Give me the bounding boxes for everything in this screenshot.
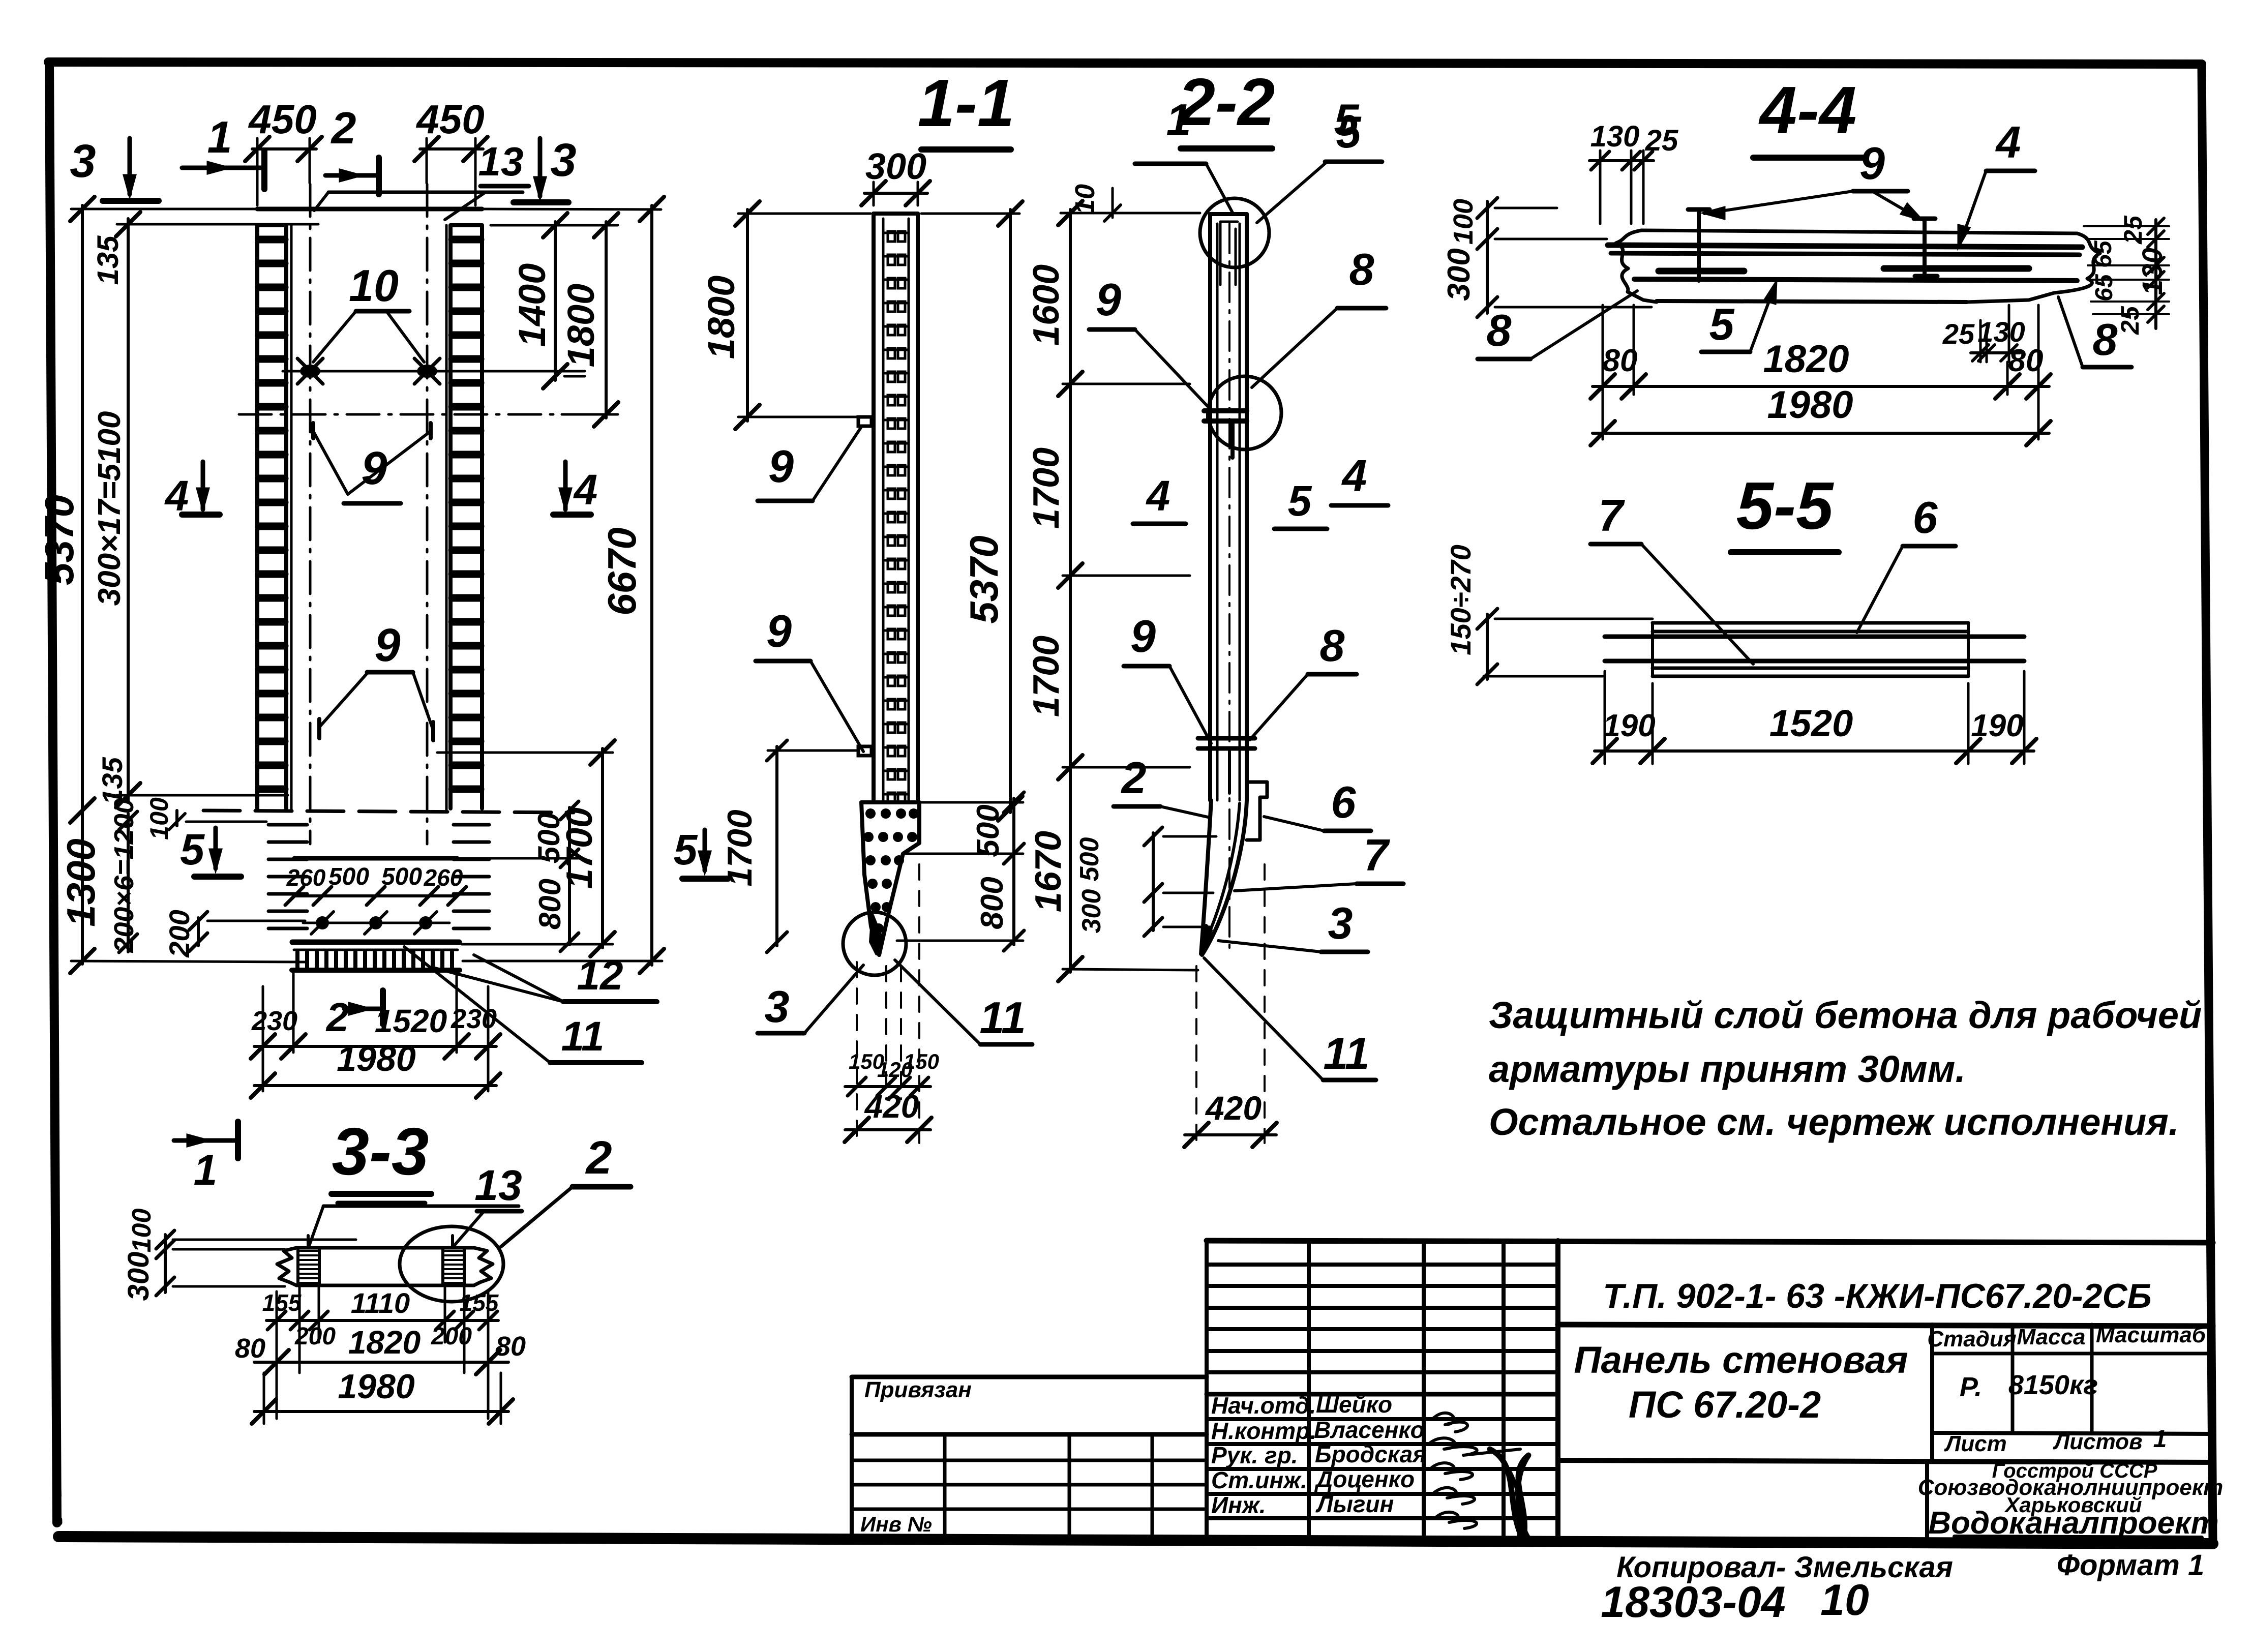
svg-text:Формат 1: Формат 1	[2057, 1549, 2204, 1582]
main view: bottom comb strip	[294, 949, 458, 951]
svg-text:500: 500	[1075, 837, 1104, 882]
svg-text:4-4: 4-4	[1758, 73, 1857, 147]
svg-text:3-3: 3-3	[332, 1114, 429, 1189]
section 2-2 column leaf walls	[1208, 214, 1212, 800]
svg-text:300: 300	[1442, 248, 1477, 301]
title block outer top line	[1207, 1241, 2213, 1243]
svg-text:200: 200	[294, 1323, 336, 1350]
svg-text:450: 450	[248, 97, 316, 142]
svg-text:5: 5	[1709, 299, 1735, 349]
section 2-2 detail circle top	[1200, 198, 1269, 267]
section 2-2 column centerline	[1228, 224, 1230, 956]
section 3-3 detail oval	[400, 1226, 503, 1302]
section 2-2 left dim line	[1069, 209, 1072, 972]
section 1-1 dimension 800 right	[1012, 857, 1015, 945]
title block name rows	[1207, 1417, 1558, 1421]
main view: vertical centerline right	[426, 184, 429, 844]
svg-text:300×17=5100: 300×17=5100	[92, 411, 127, 606]
anchor plate dot 3	[419, 916, 432, 929]
svg-text:500: 500	[328, 863, 369, 890]
svg-text:200×6=1200: 200×6=1200	[109, 798, 139, 953]
svg-text:135: 135	[92, 235, 125, 285]
svg-text:1700: 1700	[720, 809, 759, 886]
dimension 800 right	[568, 861, 571, 945]
section 4-4 dims 25 130 bottom-right	[1979, 320, 1982, 362]
title block revision grid	[1207, 1263, 1558, 1267]
section 1-1 column walls	[872, 214, 876, 802]
svg-text:4: 4	[1341, 450, 1367, 501]
svg-text:25: 25	[2116, 306, 2144, 335]
anchor plate dot 1	[316, 916, 329, 929]
svg-text:100: 100	[1448, 199, 1479, 245]
svg-text:11: 11	[979, 993, 1026, 1043]
section 3-3 dimension 80 1820 80	[263, 1373, 265, 1424]
svg-text:Инв №: Инв №	[860, 1512, 932, 1536]
svg-text:800: 800	[975, 877, 1010, 929]
svg-text:8: 8	[2093, 314, 2118, 365]
section 3-3 leader line long	[323, 1205, 519, 1208]
svg-text:1300: 1300	[58, 838, 103, 927]
dimension 1800 right	[605, 222, 608, 418]
svg-text:230: 230	[251, 1006, 297, 1036]
svg-text:12: 12	[577, 952, 623, 999]
svg-text:2: 2	[1121, 753, 1147, 803]
dimension 1980 bottom	[254, 1084, 496, 1087]
svg-text:5: 5	[1336, 107, 1362, 157]
dimension 450 left at top	[256, 138, 259, 205]
svg-text:1700: 1700	[1026, 447, 1067, 529]
section 3-3 right break	[474, 1248, 493, 1285]
dimension 300x17=5100 left	[127, 219, 130, 801]
section mark 4 left	[182, 512, 220, 518]
section 1-1 dimension 420	[845, 1128, 930, 1131]
section 2-2 splice clamp middle	[1204, 408, 1247, 413]
svg-text:Лыгин: Лыгин	[1315, 1491, 1394, 1517]
section 2-2 foundation boot teardrop	[1201, 800, 1211, 954]
main view: lifting loops row line	[283, 370, 585, 373]
svg-text:1700: 1700	[1026, 636, 1067, 717]
svg-text:9: 9	[1096, 275, 1121, 325]
section 1-1 foundation boot	[861, 800, 919, 804]
dimension 450 right at top	[426, 138, 428, 183]
title block document number cell	[1558, 1325, 2213, 1326]
svg-text:9: 9	[1859, 138, 1885, 189]
svg-text:13: 13	[474, 1161, 522, 1209]
section 1-1 weld tab upper	[858, 417, 872, 426]
svg-text:2-2: 2-2	[1177, 65, 1275, 139]
svg-text:1820: 1820	[348, 1324, 421, 1361]
main view: soil hatch marks left	[268, 823, 307, 827]
svg-text:1400: 1400	[511, 263, 553, 347]
svg-text:5: 5	[674, 826, 698, 874]
dimension 230 1520 230 bottom	[262, 986, 264, 1091]
section 1-1 detail circle at tip	[843, 912, 906, 975]
svg-text:1820: 1820	[1763, 338, 1849, 381]
section 2-2 dimension 420	[1195, 966, 1197, 1143]
svg-text:Бродская: Бродская	[1315, 1441, 1426, 1467]
svg-text:Остальное см. чертеж исполне: Остальное см. чертеж исполнения.	[1489, 1101, 2179, 1143]
svg-text:800: 800	[533, 879, 567, 929]
section 3-3 dimension 1980	[254, 1410, 508, 1413]
svg-text:300: 300	[1077, 889, 1106, 934]
svg-text:1: 1	[2153, 1426, 2167, 1453]
svg-text:65: 65	[2091, 274, 2118, 302]
svg-text:7: 7	[1599, 490, 1626, 540]
svg-text:1800: 1800	[560, 284, 602, 368]
main view: anchor plates row	[303, 922, 449, 924]
section 4-4 dims 130 25 top-left	[1599, 151, 1602, 224]
svg-text:300: 300	[865, 146, 926, 187]
svg-text:арматуры принят 30мм.: арматуры принят 30мм.	[1489, 1048, 1966, 1090]
svg-text:1-1: 1-1	[918, 66, 1015, 140]
dimension 1700 right lower	[601, 748, 604, 948]
svg-text:260: 260	[424, 864, 463, 891]
main view: panel top edge	[257, 207, 482, 212]
svg-text:150÷270: 150÷270	[1445, 545, 1477, 655]
svg-text:500: 500	[971, 804, 1006, 857]
svg-text:450: 450	[415, 97, 484, 142]
svg-text:100: 100	[127, 1209, 157, 1253]
section 3-3 hatched key block left	[298, 1248, 319, 1285]
svg-text:9: 9	[374, 619, 400, 671]
svg-text:Масштаб: Масштаб	[2096, 1323, 2207, 1347]
main view: bottom slab line	[292, 940, 459, 945]
svg-text:Т.П. 902-1- 63 -КЖИ-ПС67.20: Т.П. 902-1- 63 -КЖИ-ПС67.20-2СБ	[1603, 1277, 2151, 1315]
section 2-2 top end detail	[1219, 222, 1222, 285]
svg-text:1520: 1520	[1769, 702, 1853, 744]
svg-text:5370: 5370	[962, 535, 1006, 624]
svg-text:Стадия: Стадия	[1927, 1327, 2016, 1351]
section 3-3 left break	[277, 1248, 296, 1285]
svg-text:4: 4	[1146, 472, 1170, 520]
svg-text:80: 80	[2008, 343, 2044, 378]
svg-text:Доценко: Доценко	[1314, 1466, 1415, 1492]
svg-text:Шейко: Шейко	[1316, 1391, 1392, 1418]
svg-text:130: 130	[1590, 120, 1640, 153]
svg-text:Защитный слой бетона для р: Защитный слой бетона для рабочей	[1489, 994, 2202, 1036]
svg-text:4: 4	[164, 472, 189, 520]
section 5-5 bottom dims 190 1520 190	[1604, 671, 1606, 764]
svg-text:5-5: 5-5	[1736, 468, 1834, 543]
svg-text:80: 80	[495, 1331, 526, 1362]
svg-text:13: 13	[478, 139, 524, 184]
svg-text:1800: 1800	[700, 276, 742, 359]
svg-text:25: 25	[2119, 215, 2147, 245]
svg-text:1: 1	[207, 112, 232, 162]
svg-text:100: 100	[145, 797, 173, 840]
svg-text:80: 80	[235, 1333, 265, 1364]
main view: dashed line at grade level	[203, 810, 574, 813]
dimension 6670 far right	[650, 205, 653, 965]
svg-text:Ст.инж.: Ст.инж.	[1211, 1467, 1307, 1493]
dimension row 260 500 500 260	[294, 894, 457, 897]
svg-text:1: 1	[1166, 95, 1191, 145]
svg-text:2: 2	[331, 103, 356, 153]
svg-text:25: 25	[1645, 124, 1678, 157]
svg-text:2: 2	[325, 995, 349, 1040]
svg-text:2: 2	[585, 1132, 612, 1184]
svg-text:200: 200	[431, 1323, 472, 1350]
svg-text:1: 1	[194, 1146, 218, 1194]
svg-text:11: 11	[1323, 1028, 1369, 1078]
svg-text:5: 5	[180, 825, 205, 874]
section 4-4 right layer dims	[2154, 220, 2157, 328]
svg-text:Лист: Лист	[1944, 1431, 2007, 1456]
main view: left rib ladder	[255, 225, 259, 808]
section 2-2 splice clamp lower	[1198, 736, 1255, 741]
section 1-1 dimension 300 top	[873, 182, 875, 205]
svg-text:Р.: Р.	[1960, 1372, 1982, 1402]
svg-text:4: 4	[573, 466, 598, 514]
svg-text:300: 300	[122, 1252, 155, 1301]
svg-text:9: 9	[768, 441, 794, 492]
section 1-1 boot rebar dots	[865, 808, 876, 819]
section 4-4 dims 100 300 left	[1486, 201, 1489, 313]
main view: lifting loop right	[417, 365, 437, 378]
dimension 200 bottom-left	[197, 918, 200, 946]
main view: lifting loop left	[300, 365, 320, 378]
section 4-4 panel inner line	[1634, 279, 2077, 281]
section 1-1 dimension 1800 left	[746, 209, 749, 421]
svg-text:Нач.отд.: Нач.отд.	[1211, 1392, 1316, 1419]
svg-text:190: 190	[1603, 708, 1655, 743]
section 3-3 dims 100 300 left	[164, 1235, 167, 1293]
section 4-4 anchor left	[1697, 209, 1701, 281]
section 1-1 dimension 1700 left	[775, 746, 778, 946]
svg-text:Панель стеновая: Панель стеновая	[1574, 1339, 1908, 1381]
title block stadia massa masshtab header	[1930, 1325, 1934, 1460]
svg-text:7: 7	[1364, 830, 1391, 880]
section 4-4 anchor right	[1923, 219, 1927, 278]
section 2-2 detail circle middle	[1208, 376, 1281, 449]
svg-text:1980: 1980	[338, 1367, 414, 1406]
svg-text:3: 3	[1328, 898, 1353, 948]
title block signatures scribbles	[1433, 1413, 1467, 1432]
section 3-3 bottom dims 155 200 1110 200 155	[276, 1291, 278, 1419]
svg-text:9: 9	[1130, 611, 1156, 662]
svg-text:500: 500	[532, 813, 566, 863]
dimension 200x6=1200 left	[127, 814, 130, 952]
svg-text:135: 135	[96, 757, 128, 804]
main view: horizontal centerline	[239, 413, 613, 416]
svg-text:Власенко: Власенко	[1314, 1417, 1425, 1443]
svg-text:10: 10	[1820, 1576, 1869, 1625]
section 3-3 bar outline	[296, 1246, 474, 1250]
label 9 upper with leaders to centerlines	[311, 423, 315, 438]
section 1-1 bottom dims 150 120 150	[856, 962, 858, 1143]
svg-text:11: 11	[561, 1013, 604, 1060]
svg-text:155: 155	[460, 1289, 499, 1316]
svg-text:1110: 1110	[351, 1287, 410, 1319]
svg-text:6: 6	[1913, 492, 1938, 543]
dimension 500 right	[568, 807, 571, 861]
svg-text:8: 8	[1320, 620, 1345, 671]
page border frame	[48, 62, 2202, 64]
svg-text:10: 10	[349, 260, 399, 311]
section 5-5 rods	[1605, 635, 2024, 639]
svg-text:Масса: Масса	[2017, 1325, 2085, 1349]
svg-text:25: 25	[1942, 318, 1975, 350]
svg-text:420: 420	[864, 1088, 919, 1125]
section 4-4 bottom leaf	[1657, 301, 1967, 302]
svg-text:6: 6	[1331, 777, 1357, 827]
main view: soil hatch marks right	[454, 823, 489, 827]
svg-text:420: 420	[1205, 1089, 1262, 1127]
svg-text:9: 9	[766, 606, 792, 657]
section 4-4 panel body top line	[1641, 230, 2077, 233]
section 2-2 inner dims 500 300	[1152, 833, 1155, 930]
svg-text:6670: 6670	[599, 527, 644, 616]
svg-text:8: 8	[1349, 244, 1374, 294]
svg-text:500: 500	[381, 863, 422, 890]
section 5-5 bar body	[1653, 621, 1968, 625]
svg-text:5370: 5370	[37, 495, 82, 585]
section 1-1 column ladder core	[882, 219, 885, 801]
svg-text:230: 230	[451, 1004, 497, 1034]
main view: foundation top line	[294, 856, 457, 861]
svg-text:80: 80	[1603, 343, 1638, 378]
section 1-1 dimension 500 right	[1012, 798, 1015, 857]
svg-text:150: 150	[904, 1049, 939, 1073]
svg-text:Н.контр.: Н.контр.	[1211, 1418, 1316, 1444]
svg-text:1670: 1670	[1028, 831, 1069, 912]
main view: right rib ladder	[448, 225, 453, 808]
dimension 5370 left	[81, 205, 84, 814]
svg-text:Инж.: Инж.	[1211, 1492, 1266, 1518]
svg-text:65: 65	[2090, 240, 2117, 268]
anchor plate dot 2	[369, 916, 382, 929]
section 5-5 dim 150-270 left	[1486, 614, 1489, 679]
section 4-4 right break zigzag	[1967, 233, 2100, 302]
section mark 4 right	[553, 512, 591, 518]
svg-text:5: 5	[1288, 477, 1312, 525]
svg-text:260: 260	[286, 864, 326, 891]
svg-text:200: 200	[163, 910, 195, 957]
svg-text:9: 9	[361, 442, 387, 494]
section 2-2 boot right step bracket	[1247, 782, 1267, 840]
svg-text:3: 3	[70, 135, 96, 187]
svg-text:155: 155	[262, 1289, 302, 1316]
section 1-1 dimension 5370 right	[1009, 209, 1012, 813]
dimension 1400 right	[554, 222, 557, 380]
section 1-1 weld tab lower	[858, 746, 872, 756]
svg-text:4: 4	[1995, 117, 2021, 167]
svg-text:3: 3	[765, 981, 790, 1032]
svg-text:Привязан: Привязан	[864, 1377, 972, 1402]
svg-text:8: 8	[1487, 305, 1512, 355]
section 3-3 hatched key block right	[443, 1248, 464, 1285]
svg-text:Рук. гр.: Рук. гр.	[1211, 1442, 1298, 1468]
svg-text:3: 3	[550, 134, 576, 186]
section 4-4 dimension 1980	[1593, 432, 2049, 435]
svg-text:ПС 67.20-2: ПС 67.20-2	[1629, 1384, 1821, 1426]
section 4-4 dims 80 1820 80 bottom	[1602, 305, 1604, 439]
svg-text:1980: 1980	[1767, 383, 1853, 427]
svg-text:1600: 1600	[1026, 264, 1067, 346]
svg-text:8150кг: 8150кг	[2008, 1370, 2098, 1400]
svg-text:18303-04: 18303-04	[1601, 1578, 1785, 1627]
main view: vertical centerline left	[309, 184, 312, 844]
dimension 1300 left	[81, 810, 84, 964]
title block left attachment table	[852, 1375, 1207, 1379]
svg-text:190: 190	[1971, 708, 2023, 743]
svg-text:Листов: Листов	[2053, 1429, 2143, 1454]
section 4-4 panel body double band	[1608, 245, 2082, 247]
section 4-4 left break zigzag	[1616, 230, 1657, 302]
svg-text:1980: 1980	[337, 1039, 416, 1078]
svg-text:130: 130	[2136, 248, 2168, 295]
